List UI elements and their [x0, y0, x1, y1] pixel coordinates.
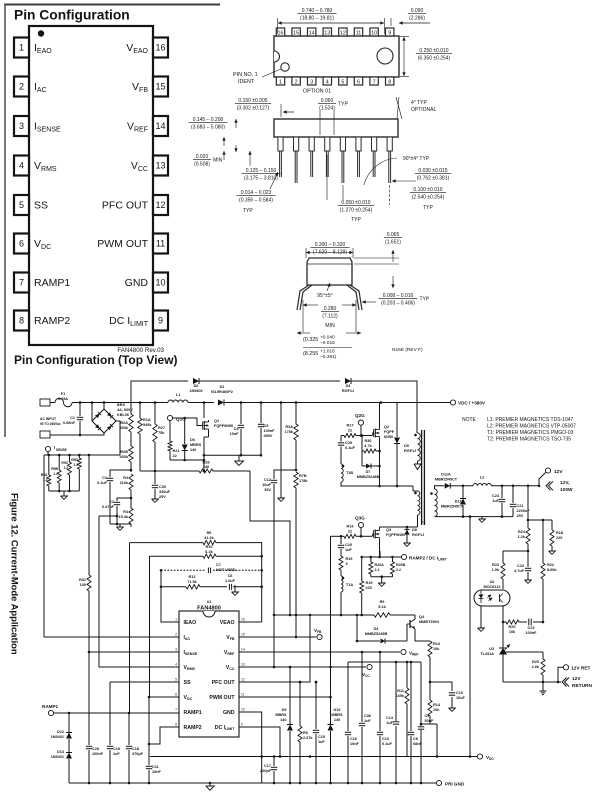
svg-text:0.008 – 0.016: 0.008 – 0.016	[383, 293, 414, 299]
svg-text:(8.255: (8.255	[303, 351, 318, 357]
diode D3 RGF1J	[345, 378, 351, 384]
svg-text:0.100 ±0.010: 0.100 ±0.010	[413, 187, 442, 193]
svg-text:(2.540 ±0.254): (2.540 ±0.254)	[412, 194, 445, 200]
svg-text:C1: C1	[70, 416, 75, 420]
svg-text:Q2: Q2	[384, 425, 389, 429]
svg-text:R31: R31	[79, 578, 86, 582]
svg-text:2: 2	[19, 82, 24, 92]
svg-text:7: 7	[373, 80, 376, 86]
svg-text:0.1uF: 0.1uF	[382, 742, 393, 746]
svg-text:10nF: 10nF	[152, 770, 162, 774]
svg-text:RGF1J: RGF1J	[412, 533, 424, 537]
svg-text:D9: D9	[282, 708, 287, 712]
svg-text:0.050 ±0.010: 0.050 ±0.010	[341, 200, 370, 206]
svg-text:4.7k: 4.7k	[364, 444, 372, 448]
svg-text:Pin Configuration: Pin Configuration	[14, 8, 130, 23]
pin 3 box	[14, 116, 29, 136]
svg-text:1uF: 1uF	[345, 548, 352, 552]
svg-text:(0.762 ±0.381): (0.762 ±0.381)	[417, 175, 450, 181]
svg-text:C8: C8	[413, 737, 418, 741]
svg-text:8: 8	[388, 80, 391, 86]
resistor R19 220	[361, 557, 363, 581]
svg-text:4: 4	[175, 663, 177, 667]
svg-text:75k: 75k	[158, 431, 165, 435]
svg-text:FQPF: FQPF	[384, 430, 395, 434]
svg-text:PRI GND: PRI GND	[445, 782, 465, 787]
svg-text:2: 2	[295, 80, 298, 86]
transformer T1A winding	[341, 576, 343, 592]
svg-text:8: 8	[19, 316, 24, 326]
wire pin15 VFB wire	[239, 636, 316, 638]
svg-text:RAMP1: RAMP1	[184, 710, 202, 716]
svg-text:(1.524): (1.524)	[319, 105, 335, 111]
svg-text:RGF1J: RGF1J	[404, 449, 416, 453]
wire secondary return to opto	[469, 517, 471, 757]
top view pin 3	[308, 77, 316, 85]
svg-text:Q3: Q3	[386, 528, 391, 532]
pin 16 box	[153, 38, 168, 58]
svg-text:D5: D5	[404, 444, 409, 448]
svg-text:PWM OUT: PWM OUT	[209, 695, 235, 701]
pin 7 box	[14, 273, 29, 293]
resistor R26B 2.2	[392, 557, 394, 562]
svg-text:D3: D3	[346, 384, 351, 388]
svg-text:R6: R6	[303, 731, 308, 735]
package top view body	[274, 36, 399, 77]
svg-text:R26B: R26B	[396, 563, 406, 567]
svg-text:R12: R12	[189, 575, 196, 579]
svg-text:RAMP2: RAMP2	[184, 725, 202, 731]
svg-text:R5D: R5D	[71, 458, 78, 462]
capacitor C2 0.47uF	[117, 498, 131, 501]
svg-text:5: 5	[341, 80, 344, 86]
wire vrms ladder bottom	[110, 523, 131, 525]
svg-text:(3.683 – 5.080): (3.683 – 5.080)	[191, 124, 225, 130]
svg-text:12: 12	[155, 200, 165, 210]
svg-text:1uF: 1uF	[364, 719, 371, 723]
diode D1 ISL9R460P2	[218, 400, 224, 406]
svg-text:0.125 – 0.150: 0.125 – 0.150	[246, 168, 277, 174]
svg-text:+1.016: +1.016	[320, 349, 335, 355]
top view pin 12	[339, 28, 347, 36]
wire comp third	[161, 586, 186, 588]
wire AC line 2 to bridge	[50, 434, 104, 436]
top view pin 2	[292, 77, 300, 85]
svg-text:R3: R3	[123, 476, 128, 480]
transformer T2 secondary	[435, 489, 438, 517]
pin 4 box	[14, 156, 29, 176]
resistor R20 10k	[506, 620, 519, 624]
resistor R14 10k	[428, 700, 432, 716]
capacitor C30 330uF 25V	[154, 471, 156, 484]
svg-text:22: 22	[173, 454, 177, 458]
svg-text:R26A: R26A	[375, 563, 385, 567]
svg-text:Q1: Q1	[214, 419, 219, 423]
side view lead 5	[340, 137, 345, 151]
pin 5 box	[14, 195, 29, 215]
pin 12 box	[153, 195, 168, 215]
svg-text:C11: C11	[152, 765, 159, 769]
svg-text:MMBT3904: MMBT3904	[419, 620, 440, 624]
svg-text:D12: D12	[57, 730, 64, 734]
svg-text:RAMP1: RAMP1	[34, 277, 70, 289]
wire comp to IEAO vertical	[161, 570, 179, 622]
resistor R22 8.66k	[542, 520, 544, 563]
transistor Q1 FQPF9N50	[203, 403, 205, 419]
resistor R31 100	[87, 575, 91, 591]
svg-text:453k: 453k	[120, 426, 129, 430]
svg-text:(7.112): (7.112)	[322, 313, 338, 319]
svg-text:1N5406: 1N5406	[189, 389, 202, 393]
svg-text:MBRS: MBRS	[275, 713, 287, 717]
svg-text:FQPF9N50: FQPF9N50	[386, 533, 405, 537]
svg-text:C18: C18	[132, 747, 139, 751]
svg-text:4: 4	[326, 80, 329, 86]
wire Q4 emitter	[415, 634, 430, 641]
wire pin4 VRMS wire	[99, 666, 179, 668]
pin 13 box	[153, 156, 168, 176]
node Q3G terminal	[358, 522, 363, 527]
svg-text:0.47uF: 0.47uF	[102, 505, 115, 509]
svg-text:2.0k: 2.0k	[532, 665, 540, 669]
svg-text:95°±5°: 95°±5°	[317, 293, 333, 299]
svg-text:220: 220	[556, 536, 562, 540]
wire VFB net junction	[295, 636, 298, 639]
wire pin13 VCC wire	[239, 666, 366, 668]
transformer T2 primary lower	[412, 486, 414, 491]
wire IAC long	[44, 636, 179, 638]
svg-text:(0.203 – 0.406): (0.203 – 0.406)	[381, 300, 415, 306]
ground R26	[378, 583, 385, 586]
svg-text:1N5401: 1N5401	[51, 755, 64, 759]
border frame	[4, 4, 220, 6]
svg-text:MIN: MIN	[213, 158, 223, 164]
svg-text:0.1uF: 0.1uF	[345, 446, 356, 450]
svg-text:T1B: T1B	[346, 471, 353, 475]
svg-text:0.68nF: 0.68nF	[63, 421, 76, 425]
capacitor C1 0.68nF	[79, 403, 81, 417]
transformer T1B winding	[341, 464, 343, 482]
capacitor C25 0.1uF	[340, 436, 342, 442]
chevron 12V output	[546, 481, 551, 490]
svg-text:12V,: 12V,	[560, 480, 570, 486]
svg-text:D6: D6	[190, 438, 195, 442]
svg-text:41.2k: 41.2k	[204, 536, 214, 540]
terminal AC input line 2	[40, 431, 50, 438]
svg-text:470pF: 470pF	[132, 752, 144, 756]
wire top rail to T2	[351, 381, 417, 433]
svg-text:R28: R28	[203, 461, 210, 465]
svg-text:OPTIONAL: OPTIONAL	[411, 107, 437, 113]
svg-text:100W: 100W	[560, 487, 573, 493]
wire T1B bottom	[341, 482, 413, 486]
svg-text:9: 9	[241, 723, 243, 727]
inductor L1	[168, 400, 188, 403]
svg-text:13: 13	[155, 161, 165, 171]
svg-text:C17: C17	[264, 764, 271, 768]
resistor R7B 178k	[294, 472, 298, 488]
svg-text:+0.040: +0.040	[320, 335, 335, 341]
svg-text:D7: D7	[366, 470, 371, 474]
svg-text:TYP: TYP	[420, 297, 430, 303]
svg-text:−0.381): −0.381)	[320, 354, 337, 360]
svg-text:14: 14	[155, 121, 165, 131]
resistor R23 1.9k	[502, 551, 504, 563]
svg-text:0.060: 0.060	[321, 98, 334, 104]
wire bottom rail VDC	[150, 756, 477, 758]
svg-text:90°±4° TYP: 90°±4° TYP	[403, 156, 430, 162]
resistor R26A 2.2	[370, 557, 372, 562]
end view right leg	[350, 285, 362, 310]
svg-text:110k: 110k	[120, 481, 129, 485]
svg-text:C6: C6	[228, 574, 233, 578]
svg-text:R11: R11	[397, 689, 404, 693]
capacitor C13 0.1uF	[379, 652, 381, 731]
svg-text:RAMP2: RAMP2	[34, 315, 70, 327]
svg-text:R14: R14	[347, 525, 355, 529]
diode D7 MMBZ5248B	[362, 465, 366, 467]
svg-text:0.090: 0.090	[411, 8, 424, 14]
node 12V RET terminal	[563, 665, 568, 670]
side view lead 1	[278, 137, 283, 151]
side view lead 3	[309, 137, 314, 151]
svg-text:1uF: 1uF	[113, 752, 120, 756]
pin 15 box	[153, 77, 168, 97]
ground earth return	[542, 682, 544, 691]
svg-text:R20: R20	[509, 625, 516, 629]
capacitor C5 100nF 450V	[260, 403, 262, 424]
svg-text:100: 100	[80, 583, 86, 587]
svg-text:Figure 12. Current-Mode Applic: Figure 12. Current-Mode Application	[10, 493, 21, 655]
svg-text:14: 14	[309, 31, 315, 37]
svg-text:T2: PREMIER MAGNETICS TSO-735: T2: PREMIER MAGNETICS TSO-735	[487, 437, 571, 443]
svg-text:PFC OUT: PFC OUT	[102, 200, 149, 212]
capacitor C22 4.7uF	[527, 551, 529, 567]
capacitor C23 100nF	[528, 619, 530, 626]
svg-text:SENSE: SENSE	[56, 448, 67, 452]
capacitor C11 10nF	[148, 697, 150, 765]
svg-text:10k: 10k	[433, 708, 440, 712]
diode D2 1N5406	[193, 378, 199, 384]
svg-text:MBR2545CT: MBR2545CT	[441, 505, 464, 509]
top view pin 11	[354, 28, 362, 36]
svg-text:0.014 – 0.023: 0.014 – 0.023	[241, 190, 272, 196]
wire sense resistor bus	[44, 454, 120, 456]
svg-text:100nF: 100nF	[264, 429, 276, 433]
terminal AC input line 1	[40, 399, 50, 406]
svg-text:PIN NO. 1: PIN NO. 1	[233, 72, 258, 78]
wire pin9 DC ILIMIT wire	[239, 727, 280, 757]
svg-text:11: 11	[241, 693, 245, 697]
pin 11 box	[153, 234, 168, 254]
svg-text:0.740 – 0.780: 0.740 – 0.780	[302, 8, 333, 14]
svg-text:22: 22	[348, 530, 352, 534]
svg-text:R23: R23	[492, 563, 499, 567]
svg-text:100nF: 100nF	[92, 752, 104, 756]
svg-text:178k: 178k	[285, 430, 294, 434]
svg-text:IEAO: IEAO	[184, 620, 197, 626]
wire pin5 SS wire	[110, 681, 179, 683]
wire pin16 VEAO wire	[239, 621, 262, 623]
side view lead 7	[372, 137, 377, 151]
svg-text:RETURN: RETURN	[572, 683, 593, 689]
svg-text:C22: C22	[517, 564, 524, 568]
wire Q4 base net	[356, 615, 358, 641]
svg-text:(0.356 – 0.584): (0.356 – 0.584)	[239, 197, 273, 203]
svg-text:R2A: R2A	[120, 421, 128, 425]
svg-text:TL431A: TL431A	[480, 652, 494, 656]
wire Q2 gate bus	[341, 435, 344, 437]
svg-text:16: 16	[278, 31, 284, 37]
svg-text:GND: GND	[223, 710, 235, 716]
capacitor C19 1uF	[109, 682, 111, 745]
svg-text:R13: R13	[433, 642, 440, 646]
wire Q1 gate wire	[173, 418, 201, 426]
svg-text:1.0uF: 1.0uF	[225, 579, 236, 583]
svg-text:R27: R27	[158, 426, 165, 430]
svg-text:D13: D13	[57, 750, 64, 754]
svg-text:MIN: MIN	[325, 323, 335, 329]
svg-text:2.2: 2.2	[375, 568, 380, 572]
resistor R9 5.1k	[374, 613, 390, 617]
top view pin 6	[354, 77, 362, 85]
wire Q3 drain	[380, 526, 418, 528]
side view lead 6	[356, 137, 361, 151]
svg-text:L1: PREMIER MAGNETICS TDS-1047: L1: PREMIER MAGNETICS TDS-1047	[487, 417, 574, 423]
svg-text:50nF: 50nF	[425, 719, 435, 723]
ground secondary return	[481, 517, 483, 519]
svg-text:IDENT: IDENT	[238, 79, 255, 85]
node ISENSE terminal	[45, 446, 50, 451]
svg-text:R2B: R2B	[120, 450, 128, 454]
svg-text:U3: U3	[489, 647, 494, 651]
wire comp to VDC vertical	[149, 556, 151, 697]
capacitor C20 1uF	[340, 536, 342, 544]
pin 2 box	[14, 77, 29, 97]
diode D5 RGF1J	[396, 403, 398, 438]
svg-text:MOC8112: MOC8112	[483, 585, 500, 589]
pin 14 box	[153, 116, 168, 136]
ground C30	[152, 499, 159, 502]
svg-text:C24: C24	[492, 494, 500, 498]
svg-text:9: 9	[388, 31, 391, 37]
svg-text:22: 22	[348, 429, 352, 433]
resistor R5D 1.2	[78, 455, 80, 458]
svg-text:C5: C5	[264, 424, 269, 428]
svg-text:C9: C9	[425, 714, 430, 718]
wire snubber ground wire	[204, 454, 261, 456]
svg-text:220: 220	[366, 586, 372, 590]
resistor R1A 549k	[139, 403, 141, 419]
transistor Q2 FQPF 6N50	[372, 432, 374, 434]
svg-text:1.2k: 1.2k	[518, 535, 526, 539]
svg-text:R22: R22	[547, 563, 554, 567]
wire VREF drop R13	[429, 682, 431, 700]
svg-text:D11B: D11B	[455, 500, 465, 504]
capacitor C16 10nF	[347, 662, 349, 731]
svg-text:1: 1	[19, 43, 24, 53]
svg-text:Q3G: Q3G	[355, 516, 365, 521]
svg-text:(3.302 ±0.127): (3.302 ±0.127)	[237, 105, 270, 111]
svg-text:4.7uF: 4.7uF	[514, 569, 525, 573]
capacitor C3 0.1uF	[110, 470, 131, 477]
svg-text:SS: SS	[34, 200, 48, 212]
pin 9 box	[153, 311, 168, 331]
svg-text:4: 4	[19, 161, 24, 171]
svg-text:VDC / +380V: VDC / +380V	[458, 401, 486, 406]
svg-text:5: 5	[175, 678, 177, 682]
svg-text:MMBZ5245B: MMBZ5245B	[365, 632, 388, 636]
ground sense network	[63, 491, 65, 496]
wire snubber bleeder	[280, 403, 282, 499]
resistor R24 1.2k	[526, 528, 530, 544]
node RAMP1 terminal	[48, 710, 53, 715]
svg-text:0.150 ±0.005: 0.150 ±0.005	[238, 98, 267, 104]
wire TL431 cathode net	[503, 651, 543, 653]
resistor R2A 453k	[130, 403, 132, 415]
svg-text:R18: R18	[556, 531, 563, 535]
svg-text:1.2: 1.2	[63, 466, 68, 470]
svg-text:140: 140	[190, 448, 196, 452]
capacitor C7 NOT USED	[161, 569, 206, 571]
wire top rail middle	[199, 380, 340, 382]
bridge rectifier BRX KBL06	[91, 403, 93, 422]
resistor R11 649k	[406, 662, 408, 688]
svg-text:15: 15	[241, 633, 245, 637]
svg-text:35V: 35V	[264, 488, 271, 492]
svg-text:3: 3	[175, 648, 177, 652]
top view pin 13	[323, 28, 331, 36]
top view pin 9	[386, 28, 394, 36]
capacitor C8 68nF	[410, 662, 412, 731]
node VDC bottom terminal	[477, 754, 482, 759]
side view lead 4	[325, 137, 330, 151]
capacitor C28 100nF	[86, 745, 92, 747]
svg-text:9: 9	[158, 316, 163, 326]
wire Q1 gate clamp bottom	[170, 459, 204, 461]
resistor R25 2.0k	[542, 652, 544, 659]
ground C22	[525, 580, 532, 583]
capacitor C24 1uF	[501, 486, 503, 498]
svg-text:13: 13	[241, 663, 245, 667]
svg-text:(1.270 ±0.254): (1.270 ±0.254)	[340, 207, 373, 213]
svg-text:GND: GND	[125, 277, 149, 289]
svg-text:FQPF9N50: FQPF9N50	[214, 424, 233, 428]
wire R7B to VFB net	[295, 488, 297, 637]
svg-text:R14: R14	[433, 703, 441, 707]
svg-text:140: 140	[334, 718, 340, 722]
svg-text:0.020: 0.020	[196, 154, 209, 160]
svg-text:Pin Configuration (Top View): Pin Configuration (Top View)	[14, 353, 178, 367]
pin 6 box	[14, 234, 29, 254]
end view left leg	[297, 285, 309, 310]
svg-text:FAN4800: FAN4800	[197, 606, 221, 612]
top view pin 15	[292, 28, 300, 36]
svg-text:8.66k: 8.66k	[547, 568, 557, 572]
svg-text:10: 10	[371, 31, 377, 37]
svg-text:N16E (REV F): N16E (REV F)	[392, 347, 423, 353]
svg-text:C14: C14	[386, 716, 394, 720]
svg-text:3: 3	[310, 80, 313, 86]
svg-text:Q4: Q4	[419, 615, 425, 619]
svg-text:ISL9R460P2: ISL9R460P2	[211, 390, 233, 394]
svg-text:12: 12	[241, 678, 245, 682]
svg-text:12V RET: 12V RET	[571, 666, 591, 672]
capacitor C9 50nF	[418, 726, 424, 728]
wire pin6 VDC wire	[149, 696, 179, 698]
wire pin10 GND wire	[239, 712, 262, 783]
svg-text:10uF: 10uF	[456, 696, 466, 700]
